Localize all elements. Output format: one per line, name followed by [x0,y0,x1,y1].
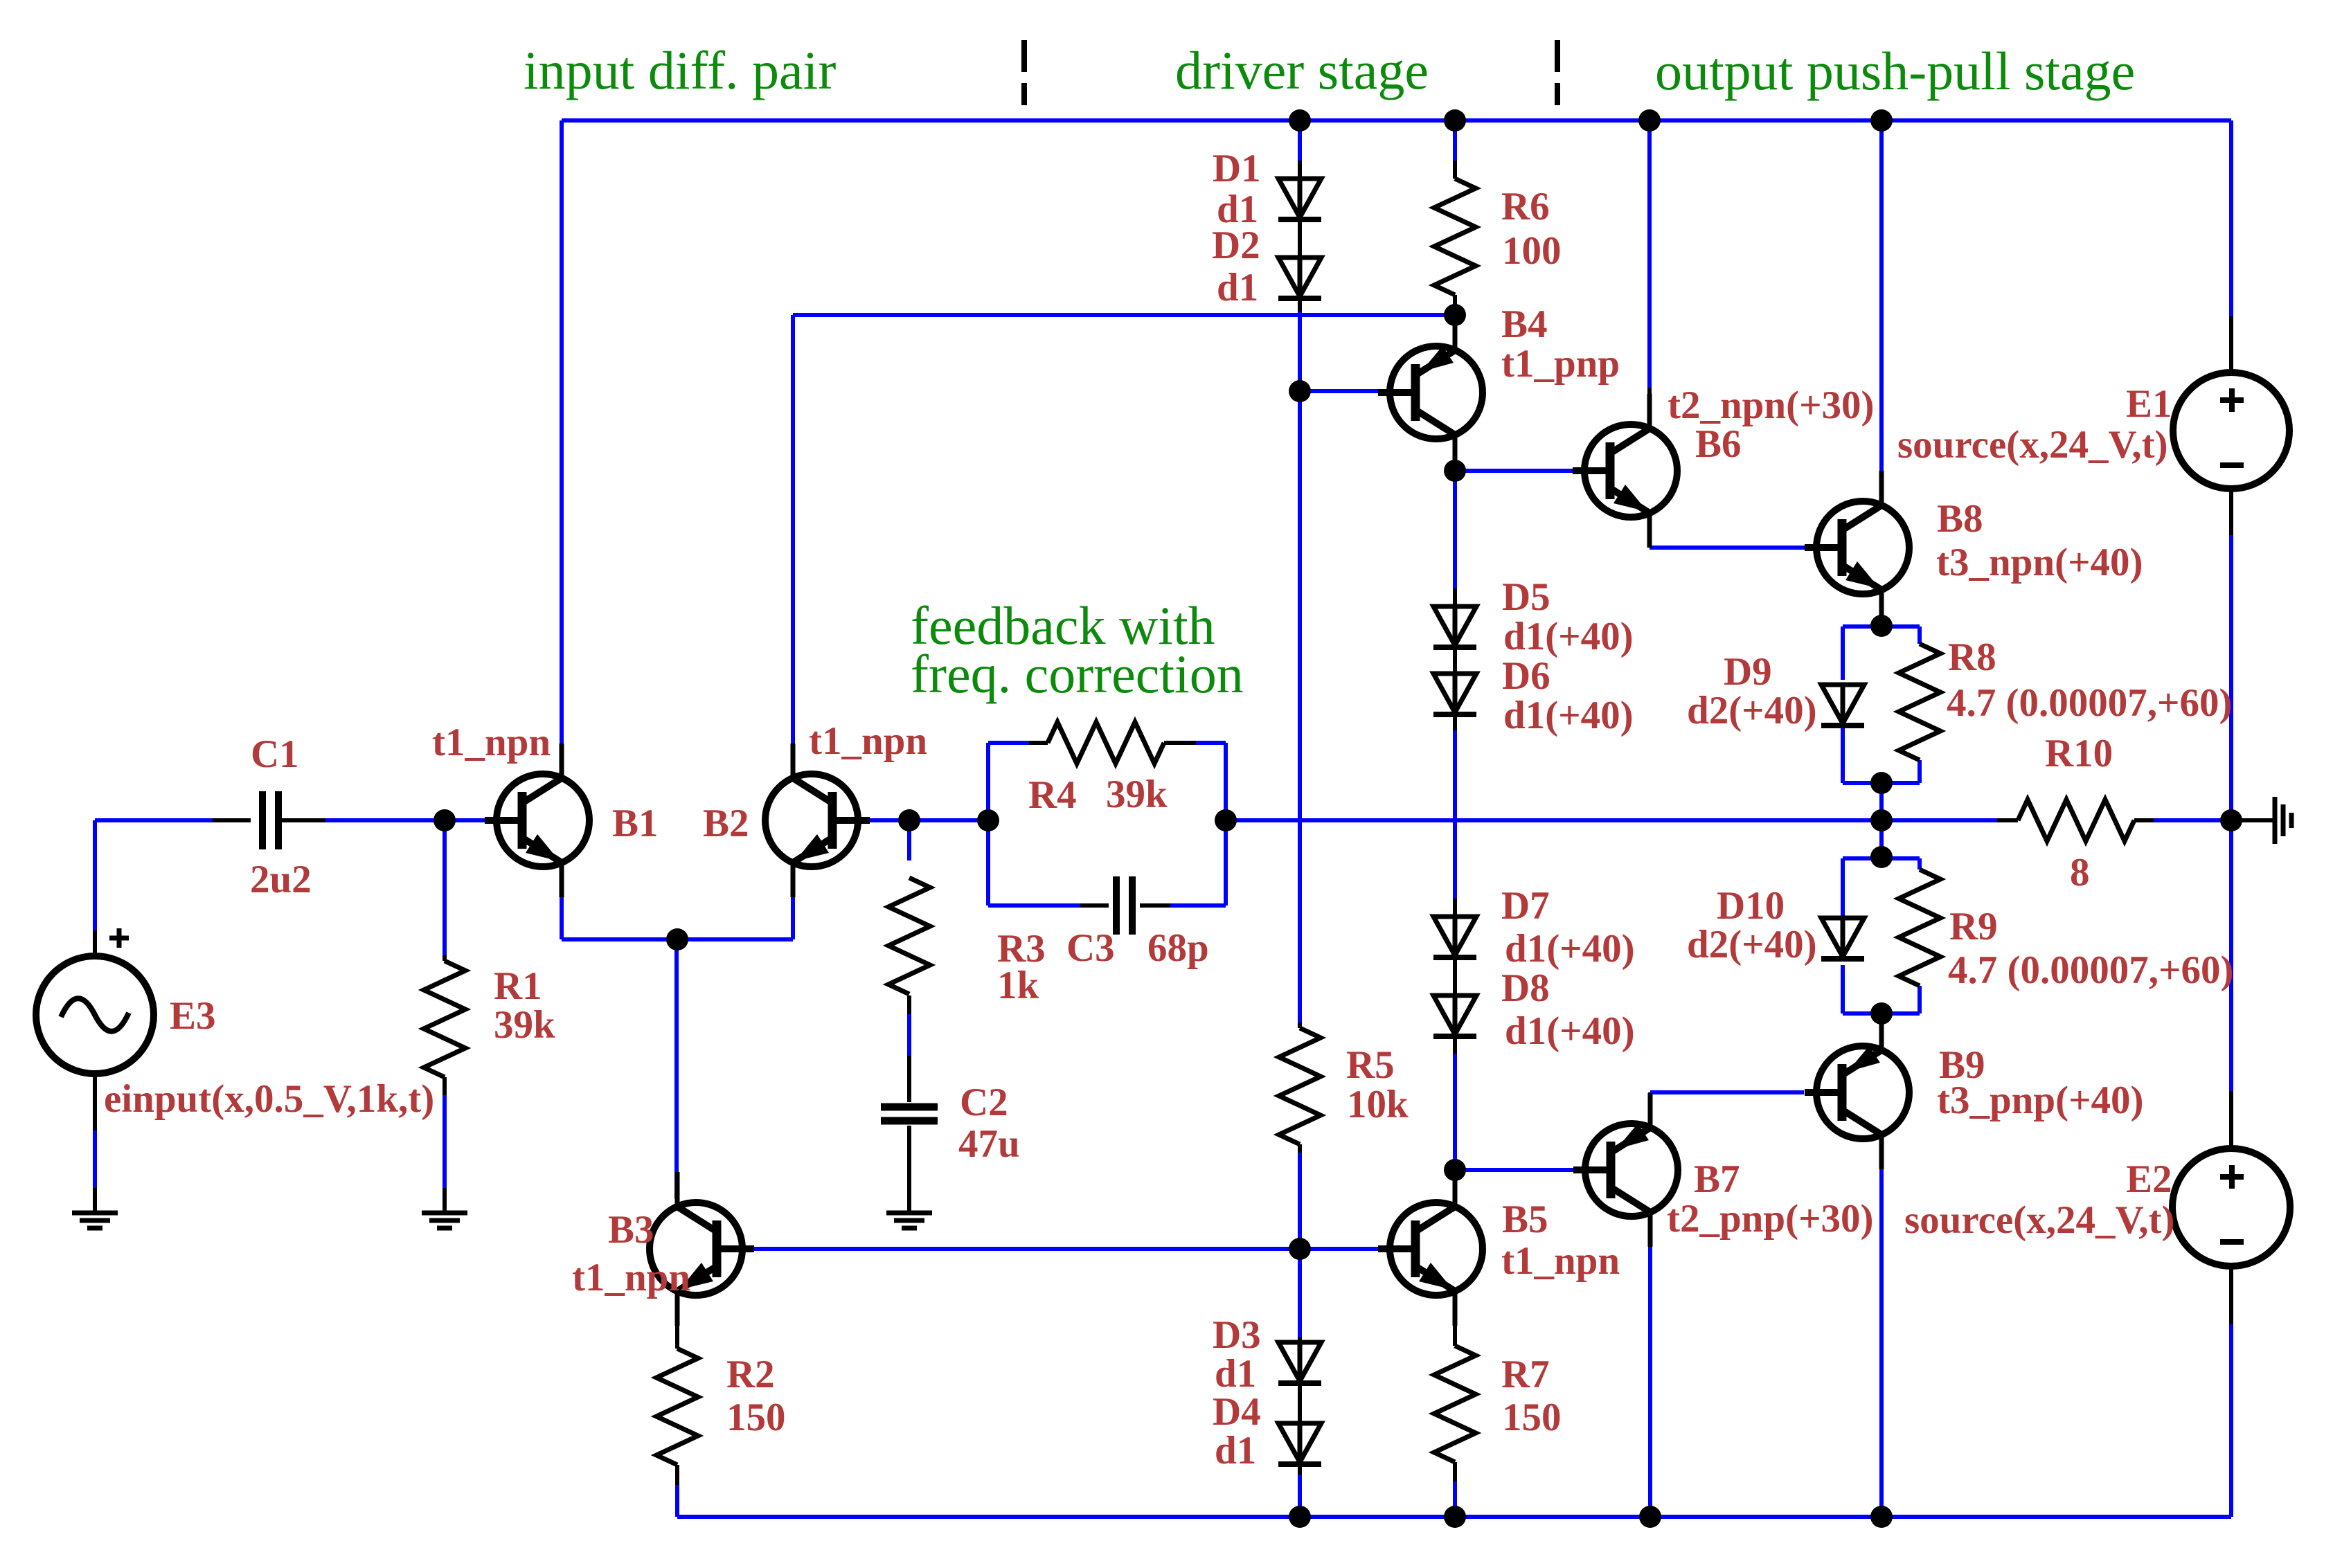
wire: B5 base node to D3 [1298,1249,1302,1342]
wire: B2 emitter down to tail [791,897,795,939]
node: B8 emitter / R8-D9 box [1870,615,1893,637]
svg-text:source(x,24_V,t): source(x,24_V,t) [1904,1198,2175,1242]
svg-text:R9: R9 [1949,905,1998,948]
wire: D3-D4 link [1298,1383,1302,1423]
label: t1_npn @(826,1864) [572,1256,690,1299]
label: E2 @(3070,1722) [2126,1157,2172,1201]
svg-text:R1: R1 [494,964,542,1008]
separator dashed line 2 [1555,40,1560,105]
wire: B2 collector to R6 node [793,313,1455,317]
label: d1(+40) @(2173,1508) [1505,1009,1635,1053]
diode D3 [1278,1342,1321,1383]
wire: D6 down to D7 [1453,714,1457,917]
label: 68p @(1657,1388) [1147,926,1209,970]
wire: main line node to feedback box [909,818,988,822]
svg-text:D8: D8 [1501,966,1550,1010]
label: D7 @(2168,1327) [1501,884,1550,928]
wire: R10 right lead to rail [2154,818,2231,822]
wire: right rail between E1 and E2 [2229,535,2233,1091]
svg-text:d1(+40): d1(+40) [1505,927,1635,971]
wire: D7-D8 link [1453,957,1457,995]
label: stage header 'driver stage' [1175,40,1429,100]
label: annotation 'freq. correction' [911,644,1244,704]
wire: E2 bottom lead [2229,1265,2233,1324]
label: 4.7 (0.00007,+60) @(2811,1034) [1947,681,2232,725]
wire: output node to R9 box [1879,820,1884,857]
svg-text:d2(+40): d2(+40) [1687,923,1817,966]
label: R2 @(1049,2004) [726,1353,775,1396]
transistor B8 (t3_npn) [1805,471,1909,624]
resistor R6 [1434,179,1476,295]
diode D6 [1433,674,1476,714]
wire: B5 emitter to R7 [1453,1299,1457,1346]
node: output node [1870,809,1893,831]
ground (R1) [422,1213,467,1228]
voltage source E1 [2173,372,2289,489]
wire: E3 bottom lead [93,1073,97,1211]
wire: E3 to input corner [95,820,215,958]
label: D10 @(2479,1327) [1717,884,1785,928]
wire: D2 to B4 base node [1298,298,1302,391]
wire: input node to B1 base [445,818,486,822]
wire: tail horizontal [562,937,793,941]
svg-text:B4: B4 [1501,303,1548,346]
wire: R5 bottom to B5 base node [1298,1144,1302,1249]
wire: E2 top lead [2229,1091,2233,1149]
wire: R2 bottom to bottom rail [675,1465,679,1517]
label: R5 @(1944,1557) [1346,1043,1395,1087]
node: R5 / B3-B5 base / D3 [1289,1238,1311,1260]
label: t1_npn @(624,1091) [432,721,551,764]
svg-text:freq. correction: freq. correction [911,644,1244,704]
label: 1k @(1440,1442) [997,964,1039,1007]
wire: B3 collector stub [674,1193,679,1199]
label: d1 @(1757,434) [1217,266,1258,309]
label: B9 @(2800,1557) [1939,1043,1985,1087]
diode D7 [1433,917,1476,957]
svg-text:D5: D5 [1502,575,1550,619]
label: C3 @(1540,1388) [1066,926,1115,970]
label: B4 @(2168,487) [1501,303,1548,346]
ground (C2) [886,1213,932,1228]
wire: B4 emitter stub to node [1453,305,1457,343]
wire: feedback box bottom side [988,903,1226,908]
wire: top rail to R6 [1453,120,1457,179]
label: B1 @(884,1208) [612,802,659,845]
node: feedback box left [977,809,999,831]
svg-text:2u2: 2u2 [250,858,312,901]
svg-text:t1_npn: t1_npn [572,1256,690,1299]
svg-text:C1: C1 [251,732,299,776]
label: t1_npn @(1168,1089) [809,719,927,763]
label: 4.7 (0.00007,+60) @(2813,1420) [1948,948,2233,992]
svg-text:D9: D9 [1724,650,1772,694]
wire: B2 collector riser [791,315,795,744]
svg-text:D2: D2 [1212,224,1260,267]
wire: B1 collector to top rail [560,120,564,744]
separator dashed line 1 [1021,40,1027,105]
ground (E3) [72,1213,118,1228]
label: B5 @(2169,1780) [1502,1198,1548,1241]
wire: B4 collector to node [1453,442,1457,471]
voltage source E3 (sine) [36,956,154,1074]
label: D6 @(2169,995) [1502,654,1550,698]
wire: B4 collector node to B6 base [1455,469,1573,473]
svg-text:R8: R8 [1948,636,1996,679]
label: d1 @(1754,2114) [1215,1429,1256,1472]
label: D4 @(1751,2058) [1213,1390,1261,1434]
wire: main output line [1226,818,1881,822]
label: R10 @(2953,1107) [2045,732,2113,775]
label: t1_npn @(2168,1840) [1501,1239,1620,1283]
label: source(x,24_V,t) @(2750,1781) [1904,1198,2175,1242]
diode D10 [1821,918,1864,959]
resistor R10 [1997,800,2154,841]
wire: input node down to R1 [443,820,447,961]
wire: B5 collector node to B7 base [1455,1168,1573,1172]
wire: D4 to bottom rail [1298,1464,1302,1517]
node: bottom rail / B9 collector [1870,1506,1893,1528]
diode D9 [1821,685,1864,726]
svg-text:einput(x,0.5_V,1k,t): einput(x,0.5_V,1k,t) [104,1077,434,1121]
capacitor C3 [1116,876,1132,935]
node: bottom rail / R7 [1444,1506,1466,1528]
svg-text:d1(+40): d1(+40) [1503,694,1634,737]
label: C1 @(362,1108) [251,732,299,776]
wire: B2 base to node [870,818,909,822]
svg-text:150: 150 [1502,1396,1562,1439]
wire: D1-D2 link [1298,219,1302,258]
wire: R8-D9 box bottom side [1843,781,1920,785]
wire: B9 collector to bottom rail [1879,1139,1884,1517]
node: R9-D10 box / B9 emitter [1870,1002,1893,1025]
wire: R3 to C2 [907,995,911,1102]
wire: top rail to B8 collector [1879,120,1884,498]
wire: C1 left lead [213,818,251,822]
node: diff pair tail [666,928,688,950]
node: top rail / bias chain [1289,109,1311,132]
label: E3 @(245,1486) [170,994,216,1038]
svg-text:t1_pnp: t1_pnp [1501,342,1620,386]
wire: feedback box right vertical [1224,743,1228,905]
wire: B4 collector node down to D5 [1453,471,1457,606]
transistor B3 (t1_npn, mirrored) [650,1172,754,1326]
node: B5 collector / B7 base / D7-D8 [1444,1159,1466,1181]
svg-text:B5: B5 [1502,1198,1548,1241]
wire: tail down to B3 collector [674,939,679,1193]
E2 minus sign [2220,1239,2244,1245]
wire: C2 bottom lead to ground [907,1126,911,1211]
label: d2(+40) @(2436,1045) [1687,689,1817,732]
svg-text:d1(+40): d1(+40) [1503,615,1634,658]
svg-text:D10: D10 [1717,884,1785,928]
resistor R3 [888,878,930,994]
transistor B9 (t3_pnp) [1805,1016,1909,1169]
resistor R4 [1029,722,1196,764]
label: R9 @(2815,1357) [1949,905,1998,948]
wire: top rail to B6 collector [1647,120,1652,421]
resistor R9 [1899,869,1940,986]
svg-text:C3: C3 [1066,926,1115,970]
capacitor C1 [262,791,278,849]
wire: top rail to D1 [1298,120,1302,179]
diode D5 [1433,606,1476,647]
label: d1(+40) @(2171,1052) [1503,694,1634,737]
svg-text:R6: R6 [1501,185,1550,228]
node: feedback box right [1215,809,1237,831]
label: R7 @(2168,2004) [1501,1353,1550,1396]
wire: D5-D6 link [1453,647,1457,674]
label: R8 @(2813,968) [1948,636,1996,679]
svg-text:d1(+40): d1(+40) [1505,1009,1635,1053]
svg-text:1k: 1k [997,964,1039,1007]
svg-text:source(x,24_V,t): source(x,24_V,t) [1897,423,2168,467]
label: C2 @(1386,1611) [960,1081,1008,1124]
label: B6 @(2448,660) [1695,422,1742,466]
label: 150 @(2169,2066) [1502,1396,1562,1439]
node: R8-D9 box bottom [1870,772,1893,794]
svg-text:B2: B2 [703,802,749,845]
svg-text:t1_npn: t1_npn [1501,1239,1620,1283]
wire: R8 box to output node [1879,783,1884,820]
wire: bottom rail [677,1515,2231,1519]
svg-text:R5: R5 [1346,1043,1395,1087]
svg-text:C2: C2 [960,1081,1008,1124]
wire: C1 to input node [325,818,445,822]
label: annotation 'feedback with' [911,595,1215,656]
svg-text:D7: D7 [1501,884,1550,928]
wire: E1 top lead [2229,316,2233,374]
label: d1(+40) @(2171,938) [1503,615,1634,658]
wire: B1 collector stub [560,744,564,777]
svg-text:100: 100 [1502,229,1562,273]
resistor R1 [424,961,465,1077]
label: B3 @(878,1795) [608,1208,654,1252]
wire: C3 leads [1080,903,1170,908]
label: 47u @(1384,1671) [958,1122,1020,1166]
label: einput(x,0.5_V,1k,t) @(150,1606) [104,1077,434,1121]
label: t2_pnp(+30) @(2407,1779) [1667,1197,1874,1241]
diode D8 [1433,995,1476,1036]
wire: B2 collector stub [791,744,795,777]
label: t1_pnp @(2168,544) [1501,342,1620,386]
label: 2u2 @(361,1289) [250,858,312,901]
svg-text:D1: D1 [1213,147,1261,190]
wire: R9-D10 box right vertical [1918,858,1922,1013]
svg-text:R2: R2 [726,1353,775,1396]
svg-text:d1: d1 [1217,266,1258,309]
svg-text:8: 8 [2070,851,2090,894]
capacitor C2 [881,1107,938,1121]
svg-text:47u: 47u [958,1122,1020,1166]
svg-text:R4: R4 [1028,773,1077,817]
transistor B7 (t2_pnp) [1573,1093,1678,1247]
label: stage header 'input diff. pair' [524,40,836,100]
node: D2 / B4 base / R5 [1289,380,1311,402]
label: source(x,24_V,t) @(2740,661) [1897,423,2168,467]
wire: D8 to B5 collector node [1453,1036,1457,1170]
svg-text:B1: B1 [612,802,659,845]
label: R6 @(2168,317) [1501,185,1550,228]
label: t3_npn(+40) @(2796,831) [1936,541,2143,584]
wire: E1 bottom lead [2229,487,2233,535]
svg-text:t2_pnp(+30): t2_pnp(+30) [1667,1197,1874,1241]
label: D8 @(2168,1446) [1501,966,1550,1010]
diode D1 [1278,179,1321,219]
diode D2 [1278,258,1321,298]
label: 8 @(2989,1279) [2070,851,2090,894]
wire: B7 collector to bottom rail [1648,1220,1652,1517]
E1 minus sign [2220,462,2244,468]
node: R9-D10 box top [1870,846,1893,868]
E3 plus sign [109,928,129,948]
wire: B2 emitter stub [791,863,795,897]
label: D3 @(1751,1947) [1213,1313,1261,1357]
node: output / right rail / ground [2220,809,2242,831]
label: d2(+40) @(2436,1383) [1687,923,1817,966]
wire: top supply rail [562,118,2231,123]
label: stage header 'output push-pull stage' [1655,41,2135,101]
label: 150 @(1049,2066) [726,1396,786,1439]
wire: main line to R10 [1881,818,1997,822]
label: D2 @(1750,373) [1212,224,1260,267]
svg-text:39k: 39k [1106,773,1168,816]
wire: feedback box left vertical [986,743,990,905]
label: B8 @(2797,768) [1937,497,1983,541]
node: top rail / B8 collector [1870,109,1893,132]
wire: R9-D10 box bottom side [1843,1011,1920,1016]
wire: B1 emitter stub [560,863,564,897]
svg-text:E1: E1 [2126,382,2172,426]
svg-text:d1: d1 [1215,1352,1256,1396]
label: B2 @(1015,1208) [703,802,749,845]
label: t3_pnp(+40) @(2797,1608) [1937,1079,2144,1122]
voltage source E2 [2172,1148,2290,1266]
svg-text:t3_pnp(+40): t3_pnp(+40) [1937,1079,2144,1122]
wire: R8-D9 box right vertical [1918,627,1922,783]
svg-text:t1_npn: t1_npn [809,719,927,763]
wire: R7 bottom to bottom rail [1453,1462,1457,1517]
svg-text:39k: 39k [494,1003,555,1047]
label: D9 @(2489,989) [1724,650,1772,694]
wire: right rail E1 top segment [2229,120,2233,316]
node: bottom rail / B7 collector [1639,1506,1661,1528]
transistor B2 (t1_npn, mirrored) [765,744,870,897]
wire: R8-D9 box left vertical [1841,627,1845,783]
node: top rail / R6 [1444,109,1466,132]
resistor R8 [1899,644,1940,760]
svg-text:D3: D3 [1213,1313,1261,1357]
wire: R9 box to B9 emitter [1879,1013,1884,1046]
svg-text:B6: B6 [1695,422,1742,466]
svg-text:d2(+40): d2(+40) [1687,689,1817,732]
label: 39k @(713,1499) [494,1003,555,1047]
wire: right rail below E2 to bottom rail [2229,1324,2233,1517]
resistor R2 [656,1349,698,1465]
wire: B6 emitter corner to B8 base [1650,521,1805,548]
node: B2 base / R3 [898,809,920,831]
svg-text:d1: d1 [1215,1429,1256,1472]
node: B4 collector / B6 base / D5 [1444,460,1466,482]
svg-text:t2_npn(+30): t2_npn(+30) [1668,384,1875,427]
wire: B1 base lead outer [485,818,503,822]
resistor R7 [1434,1346,1476,1462]
svg-text:10k: 10k [1347,1083,1409,1126]
label: 39k @(1597,1166) [1106,773,1168,816]
label: D1 @(1751,262) [1213,147,1261,190]
wire: B5 collector stub [1453,1170,1457,1199]
wire: feedback box top side [988,741,1226,745]
svg-text:D4: D4 [1213,1390,1261,1434]
transistor B5 (t1_npn) [1378,1172,1483,1326]
svg-text:R10: R10 [2045,732,2113,775]
transistor B6 (t2_npn) [1573,394,1677,548]
transistor B4 (t1_pnp) [1378,316,1483,469]
svg-text:B3: B3 [608,1208,654,1252]
svg-text:E2: E2 [2126,1157,2172,1201]
wire: B1 emitter down to tail [560,897,564,939]
svg-text:t1_npn: t1_npn [432,721,551,764]
resistor R5 [1279,1028,1321,1144]
wire: C1 right lead [282,818,325,822]
svg-text:D6: D6 [1502,654,1550,698]
wire: R8-D9 box top side [1843,624,1920,629]
label: 10k @(1945,1614) [1347,1083,1409,1126]
label: d1 @(1754,2003) [1215,1352,1256,1396]
svg-text:B8: B8 [1937,497,1983,541]
node: bottom rail / D4 [1289,1506,1311,1528]
label: E1 @(3070,602) [2126,382,2172,426]
wire: R9-D10 box top side [1843,856,1920,860]
svg-text:E3: E3 [170,994,216,1038]
wire: R1 top lead [443,955,447,961]
node: input node / R1 [433,809,456,831]
svg-text:4.7 (0.00007,+60): 4.7 (0.00007,+60) [1947,681,2232,725]
wire: R1 bottom lead [443,1077,447,1095]
wire: R1 bottom to ground [443,1095,447,1211]
wire: R6 bottom to B4 emitter node [1453,295,1457,305]
diode D4 [1278,1423,1321,1464]
E1 plus sign [2220,388,2244,412]
svg-text:150: 150 [726,1396,786,1439]
label: D5 @(2169,881) [1502,575,1550,619]
wire: B4 base node to R5 [1298,391,1302,1028]
label: R1 @(713,1443) [494,964,542,1008]
svg-text:t3_npn(+40): t3_npn(+40) [1936,541,2143,584]
svg-text:68p: 68p [1147,926,1209,970]
node: top rail / B6 collector [1638,109,1661,132]
E2 plus sign [2220,1165,2244,1189]
wire: B8 emitter to node [1879,597,1884,626]
label: R4 @(1485,1167) [1028,773,1077,817]
wire: B3-B5 base line [754,1247,1378,1251]
svg-text:input diff. pair: input diff. pair [524,40,836,100]
wire: B7 emitter corner to B9 base [1650,1092,1804,1120]
transistor B1 (t1_npn) [485,744,589,897]
svg-text:R7: R7 [1501,1353,1550,1396]
ground (output, right-facing) [2275,797,2291,844]
wire: B3 emitter to R2 [675,1299,679,1349]
wire: node down to R3 [907,820,911,860]
label: R3 @(1440,1389) [997,927,1046,971]
wire: R9-D10 box left vertical [1841,858,1845,1013]
wire: B4 base node to B4 [1300,389,1378,393]
svg-text:output push-pull stage: output push-pull stage [1655,41,2135,101]
label: d1 @(1757,321) [1217,188,1258,231]
label: t2_npn(+30) @(2408,604) [1668,384,1875,427]
node: R6 / B4 emitter / B2 collector [1444,304,1466,326]
svg-text:driver stage: driver stage [1175,40,1429,100]
